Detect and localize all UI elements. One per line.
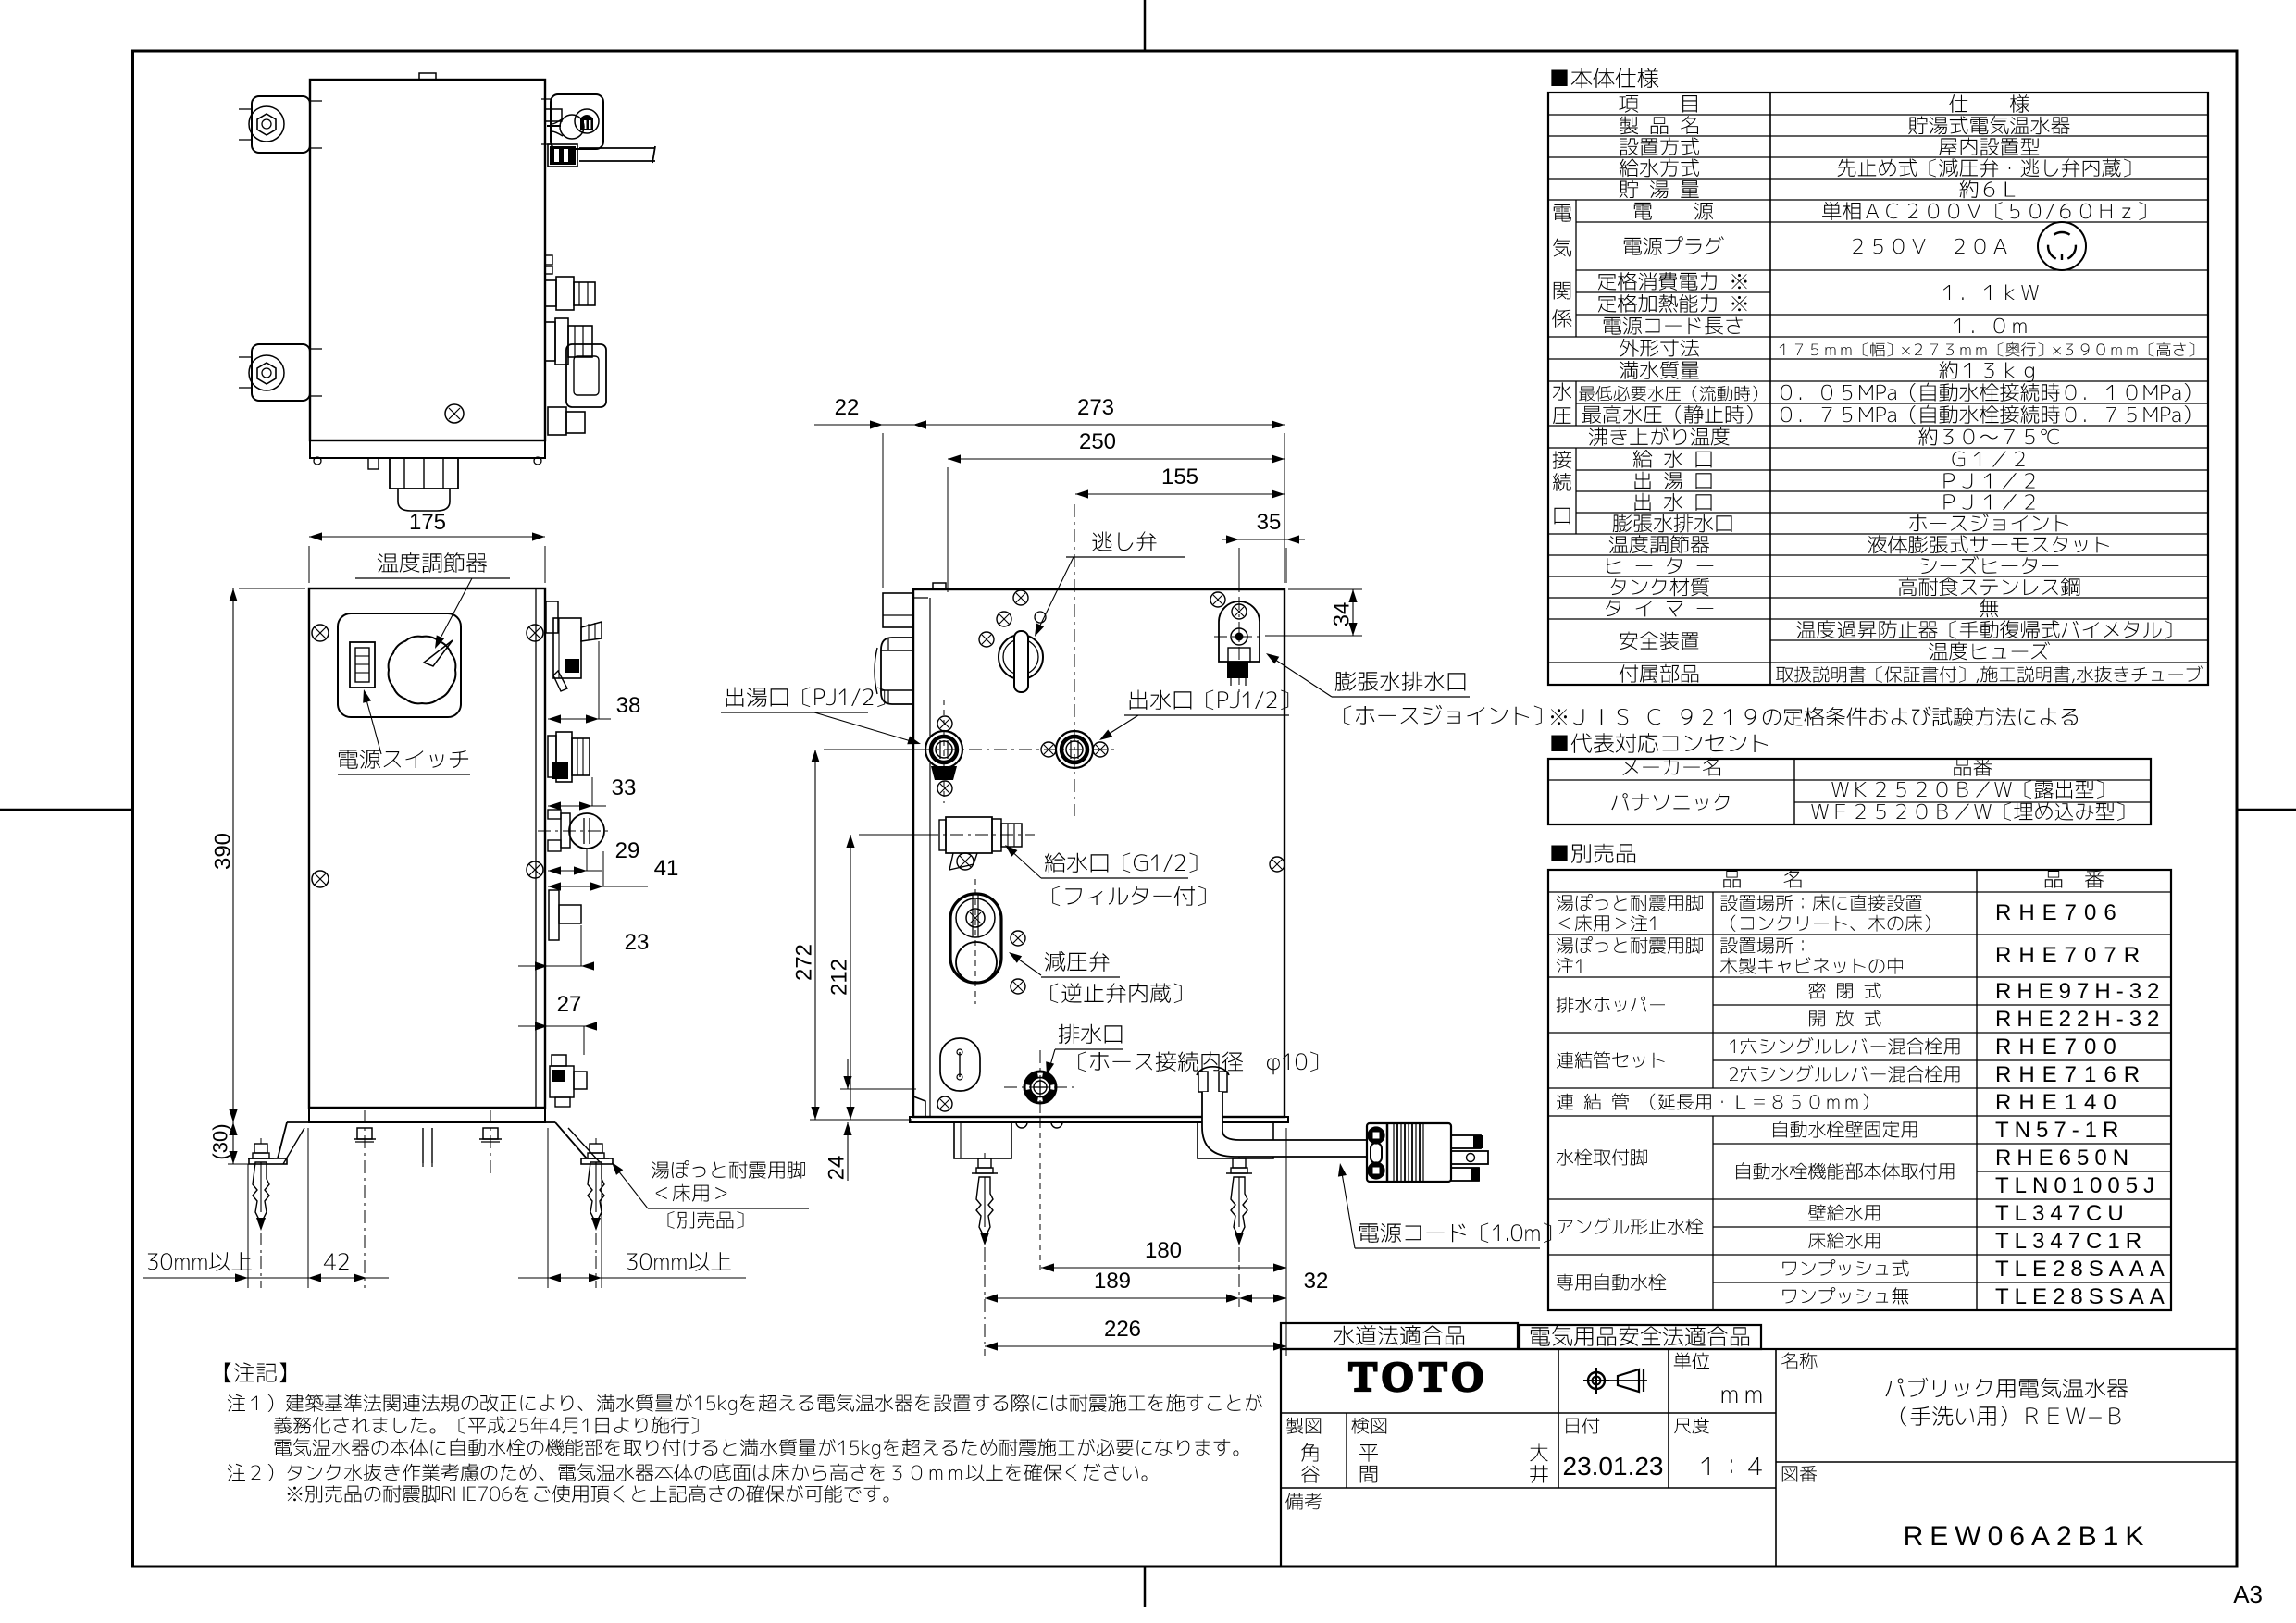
- dim (30): [209, 1122, 274, 1164]
- svg-text:RHE716R: RHE716R: [1995, 1062, 2147, 1087]
- svg-text:TOTO: TOTO: [1348, 1353, 1488, 1400]
- front view side fitting 3 water inlet circle: [538, 810, 609, 851]
- side view feet blocks: [954, 1122, 1273, 1158]
- label 出水口: [1099, 690, 1289, 740]
- label 温度調節器: [355, 552, 510, 649]
- svg-text:226: 226: [1104, 1317, 1141, 1342]
- label 膨張水排水口: [1266, 653, 1542, 725]
- label 逃し弁: [1035, 531, 1185, 637]
- top view wall bracket lower: [239, 344, 322, 401]
- svg-text:212: 212: [826, 959, 851, 996]
- top view mid fitting: [545, 255, 595, 310]
- label 給水口: [1005, 845, 1206, 906]
- svg-text:189: 189: [1094, 1269, 1131, 1294]
- top view power cord stub: [579, 146, 655, 163]
- side view wall bracket: [883, 593, 930, 1117]
- svg-text:RHE650N: RHE650N: [1995, 1146, 2134, 1171]
- label 湯ぽっと耐震用脚: [612, 1160, 809, 1229]
- front view panel screws: [312, 625, 329, 641]
- svg-text:TN57-1R: TN57-1R: [1995, 1118, 2124, 1143]
- svg-text:250: 250: [1079, 429, 1116, 454]
- outlet table 代表対応コンセント: [1548, 733, 2151, 824]
- label 出湯口: [721, 688, 921, 745]
- top view relief valve bracket right: [541, 94, 603, 149]
- front view power switch: [350, 642, 375, 688]
- side view anchor bolt right: [1226, 1153, 1252, 1270]
- JIS note: [1551, 706, 2078, 726]
- accessories table 別売品: [1548, 844, 2171, 1310]
- label 排水口: [1046, 1024, 1318, 1075]
- svg-text:33: 33: [612, 775, 637, 800]
- front view side fitting 4: [549, 890, 581, 940]
- centering mark left: [0, 809, 133, 811]
- svg-text:27: 27: [557, 992, 582, 1017]
- side view relief valve screws: [979, 590, 1046, 647]
- front view side fitting 5: [550, 1055, 587, 1107]
- dim 175: [309, 510, 545, 583]
- front view side fitting 2 hot water outlet: [548, 732, 590, 782]
- label 減圧弁: [1009, 951, 1182, 1003]
- front view control panel: [338, 613, 461, 717]
- svg-text:RHE706: RHE706: [1995, 900, 2124, 925]
- title block labels: [1285, 1352, 2150, 1552]
- svg-text:29: 29: [615, 838, 640, 863]
- side view big nut hot-water port side: [875, 638, 912, 704]
- svg-text:32: 32: [1304, 1269, 1329, 1294]
- svg-text:23: 23: [625, 930, 650, 955]
- svg-text:TL347CU: TL347CU: [1995, 1201, 2129, 1226]
- side view inlet fitting 給水口: [925, 817, 1035, 870]
- first angle projection symbol: [1583, 1368, 1647, 1394]
- top view relief valve assembly: [545, 109, 584, 167]
- front view under-box bolts: [354, 1110, 502, 1288]
- svg-text:RHE22H-32: RHE22H-32: [1995, 1007, 2165, 1032]
- svg-text:272: 272: [791, 944, 816, 981]
- side view power plug: [1367, 1123, 1488, 1182]
- side view relief valve: [999, 631, 1043, 692]
- front view temperature dial: [389, 637, 456, 704]
- svg-text:REW06A2B1K: REW06A2B1K: [1904, 1521, 2151, 1552]
- bottom dims 30mm and 42: [143, 1128, 746, 1288]
- spec table 本体仕様: [1548, 68, 2208, 685]
- side view screws: [937, 592, 1285, 1111]
- svg-text:A3: A3: [2233, 1580, 2263, 1608]
- dim 41: [548, 851, 678, 891]
- front view anchor bolt left: [248, 1138, 274, 1288]
- dim 29: [548, 838, 639, 875]
- front view anchor bolt right: [583, 1138, 609, 1288]
- top view lower fitting assembly: [545, 318, 606, 435]
- svg-text:(30): (30): [209, 1123, 232, 1159]
- side view drain port 排水口: [1004, 1050, 1078, 1122]
- side view anchor bolt left: [972, 1153, 998, 1270]
- top view wall bracket upper: [239, 96, 322, 153]
- dim 27: [518, 992, 597, 1055]
- svg-text:RHE97H-32: RHE97H-32: [1995, 979, 2165, 1004]
- svg-text:24: 24: [824, 1156, 849, 1181]
- svg-text:RHE707R: RHE707R: [1995, 943, 2147, 968]
- side view bottom dims 180 189 32 226: [985, 1122, 1328, 1356]
- centering mark bottom: [1144, 1567, 1147, 1607]
- TOTO logo: [1348, 1353, 1488, 1400]
- svg-text:41: 41: [654, 856, 679, 881]
- title block: [1281, 1323, 2237, 1567]
- dim 23: [518, 925, 649, 971]
- svg-text:35: 35: [1257, 510, 1282, 535]
- side view keyhole slot: [940, 1038, 980, 1091]
- svg-text:RHE140: RHE140: [1995, 1090, 2124, 1115]
- svg-text:23.01.23: 23.01.23: [1563, 1452, 1664, 1481]
- side view port 出水口: [1041, 731, 1108, 768]
- front view side fitting 1 expansion drain: [546, 601, 602, 691]
- dim 33: [548, 775, 636, 811]
- svg-text:22: 22: [835, 395, 860, 420]
- dim 38: [548, 641, 640, 724]
- svg-text:180: 180: [1145, 1238, 1182, 1263]
- side view left dims 272 212 24: [791, 750, 929, 1181]
- front view main body: [309, 588, 545, 1122]
- front view seismic bracket: [249, 1122, 613, 1171]
- power plug icon: [2038, 222, 2086, 270]
- top view bottom drain fitting: [368, 458, 458, 511]
- label 電源スイッチ: [338, 689, 470, 774]
- dim 390: [210, 588, 305, 1122]
- dim 34: [1265, 589, 1362, 636]
- svg-text:TLN01005J: TLN01005J: [1995, 1173, 2160, 1198]
- sheet size label A3: [2233, 1580, 2263, 1608]
- centering mark top: [1144, 0, 1147, 51]
- svg-text:TL347C1R: TL347C1R: [1995, 1229, 2147, 1254]
- notes 注記: [225, 1362, 1262, 1503]
- label 電源コード: [1338, 1163, 1551, 1248]
- side view expansion drain port: [1214, 597, 1264, 692]
- centering mark right: [2237, 809, 2296, 811]
- side view port 出湯口: [925, 716, 962, 796]
- side view port centerlines: [919, 504, 1115, 816]
- top view main body: [310, 73, 545, 465]
- svg-text:390: 390: [210, 833, 235, 870]
- svg-text:TLE28SAAA: TLE28SAAA: [1995, 1257, 2170, 1282]
- side view pressure reducing valve 減圧弁: [950, 879, 1025, 1004]
- svg-text:RHE700: RHE700: [1995, 1035, 2124, 1059]
- side view power cord elbow: [1197, 1067, 1367, 1157]
- svg-text:TLE28SSAA: TLE28SSAA: [1995, 1284, 2170, 1309]
- dim 35: [1222, 510, 1305, 592]
- svg-text:175: 175: [409, 510, 446, 535]
- svg-text:273: 273: [1077, 395, 1114, 420]
- svg-text:38: 38: [616, 693, 641, 718]
- top dims 22 273 250 155: [814, 395, 1285, 592]
- svg-text:155: 155: [1161, 465, 1198, 489]
- side view main body: [910, 583, 1288, 1128]
